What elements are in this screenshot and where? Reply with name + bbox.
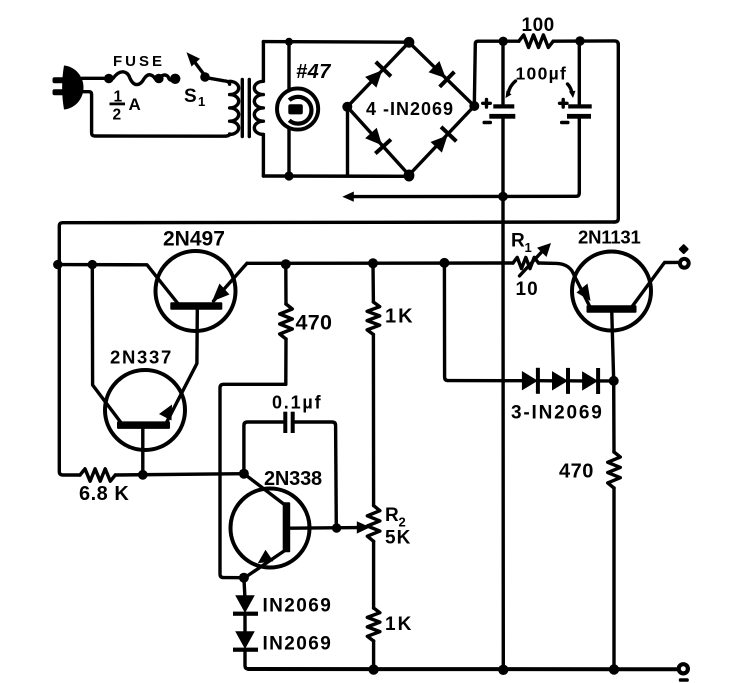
svg-text:470: 470 [559, 461, 594, 483]
leader arrow to C2 [568, 84, 572, 92]
wire Q2 base down [141, 429, 144, 475]
wire plus rail right of resistor [553, 41, 618, 45]
svg-text:1: 1 [198, 94, 205, 109]
diode D7 IN2069 [522, 368, 540, 394]
wire C2 bottom line with arrow [352, 193, 579, 197]
svg-text:0.1µf: 0.1µf [272, 393, 322, 413]
wiper arrow R2 [357, 521, 370, 533]
svg-text:A: A [129, 95, 141, 114]
resistor 470 left [280, 264, 293, 384]
transistor Q4 2N1131 [572, 252, 678, 331]
svg-text:3-IN2069: 3-IN2069 [511, 403, 604, 424]
wire Q3 base to R2 [290, 526, 358, 530]
resistor 1K top [367, 263, 380, 505]
wire Q1 base down [167, 310, 197, 422]
svg-text:1K: 1K [385, 614, 413, 635]
svg-text:2N1131: 2N1131 [578, 227, 641, 248]
node bottom rail x503 [498, 665, 508, 675]
node bridge right [469, 101, 479, 111]
svg-text:1K: 1K [385, 306, 415, 328]
switch S1 [187, 52, 210, 81]
node base capacitor junction [332, 523, 341, 532]
svg-text:5K: 5K [385, 528, 411, 549]
transistor Q1 2N497 [156, 251, 248, 331]
svg-text:10: 10 [516, 279, 539, 300]
diode D1 bridge upper-left [363, 60, 392, 89]
transistor Q3 2N338 [231, 474, 310, 578]
svg-text:2: 2 [113, 107, 122, 124]
wire right vertical down [615, 45, 619, 223]
svg-text:100: 100 [522, 15, 555, 36]
wire R1 to Q4 emitter [539, 263, 590, 306]
svg-text:R: R [511, 231, 525, 252]
wire upper cross rail y222 [59, 222, 614, 265]
node Q2 base junction [138, 470, 148, 480]
svg-text:S: S [184, 86, 197, 107]
node bridge top [404, 37, 415, 48]
wire Q2 collector drop x92 [92, 265, 120, 422]
output terminal plus [678, 244, 689, 268]
wire AC top rail [263, 40, 409, 44]
node rail diode loop drop [439, 258, 449, 268]
node C1 line junction [498, 192, 508, 202]
wire diode loop x444 down and across [444, 263, 522, 381]
node Q3 emitter junction [239, 573, 249, 583]
wire switch to transformer primary [207, 78, 230, 84]
node bridge left [342, 102, 352, 112]
wire main rail left part [58, 265, 178, 303]
output terminal minus [679, 664, 689, 682]
wire plug bottom loop [83, 92, 230, 137]
leader arrow to C1 [508, 81, 516, 94]
resistor 470 right [608, 452, 621, 670]
node Q3 collector junction [239, 469, 249, 479]
capacitor C1 100uf [483, 42, 516, 197]
wire plug to fuse [82, 77, 104, 80]
capacitor C2 100uf [560, 41, 592, 193]
diode D5 IN2069 [233, 578, 258, 631]
resistor 1K bottom [367, 541, 380, 670]
diode D9 IN2069 [570, 368, 614, 394]
wire 470 bottom to x220 down to Q3 emitter junction [220, 384, 286, 577]
svg-text:R: R [385, 505, 399, 526]
wire main rail mid [247, 261, 513, 265]
wire lamp bottom rail [263, 174, 409, 178]
wire long vertical x503 [501, 197, 505, 671]
node rail cap2 [575, 36, 584, 45]
node diode string end [609, 376, 619, 386]
fuse F1 [104, 72, 180, 85]
wire bridge left corner down to rail [346, 107, 349, 176]
svg-text:100µf: 100µf [516, 64, 568, 84]
svg-text:1: 1 [525, 240, 532, 255]
diode D3 bridge lower-left [363, 126, 392, 155]
resistor 6.8K [80, 469, 115, 481]
node bottom rail R2 chain [368, 664, 378, 674]
svg-text:4 -IN2069: 4 -IN2069 [366, 99, 454, 119]
svg-text:470: 470 [296, 311, 333, 335]
diode D8 IN2069 [540, 368, 570, 394]
label 1/2 A [110, 89, 141, 124]
resistor 100 [519, 35, 553, 48]
svg-text:IN2069: IN2069 [263, 634, 333, 655]
diode D2 bridge upper-right [427, 59, 456, 88]
svg-text:FUSE: FUSE [113, 53, 165, 70]
node bridge bottom [404, 170, 415, 182]
bridge rectifier diamond [347, 42, 474, 175]
svg-text:2N497: 2N497 [163, 228, 225, 251]
node rail cap1 [499, 37, 508, 46]
wire lamp vertical top [287, 42, 290, 90]
diode D4 bridge lower-right [429, 125, 458, 154]
node rail 470 drop [281, 259, 291, 269]
node rail Q2 drop [88, 260, 97, 269]
svg-text:2N337: 2N337 [110, 347, 173, 368]
node lamp bottom [284, 171, 293, 180]
potentiometer R1 10 [513, 243, 551, 276]
transistor Q2 2N337 [105, 370, 185, 450]
wire 6.8K line to Q3 junction [115, 474, 244, 475]
wire left vertical x59 [59, 265, 80, 476]
node lamp top [285, 38, 293, 46]
svg-text:2N338: 2N338 [264, 468, 322, 490]
lamp #47 [277, 88, 318, 129]
capacitor C3 0.1uf [244, 412, 336, 528]
diode D6 IN2069 [233, 631, 258, 669]
svg-text:6.8 K: 6.8 K [79, 483, 129, 505]
svg-text:#47: #47 [296, 61, 331, 83]
svg-text:IN2069: IN2069 [263, 596, 333, 617]
node rail R2 drop [368, 258, 378, 268]
wire lamp vertical bottom [287, 128, 290, 176]
wire bottom rail [249, 667, 677, 671]
AC plug P1 [53, 66, 84, 110]
transformer T1 [230, 42, 264, 176]
potentiometer R2 5K [367, 506, 380, 542]
node bottom rail 470 [609, 664, 619, 674]
node rail left [53, 260, 62, 269]
wire bridge right corner up to plus rail [474, 41, 519, 106]
wire Q4 base down [612, 313, 614, 452]
